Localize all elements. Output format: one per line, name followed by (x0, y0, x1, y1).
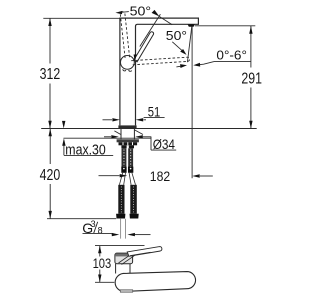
bottom view lever crossing housing (119, 253, 137, 265)
svg-text:max.30: max.30 (65, 142, 106, 158)
mounting nut band (119, 142, 138, 145)
ball lower bumps (123, 69, 132, 71)
stream angle right arrow (199, 62, 214, 65)
bottom view cartridge housing (115, 253, 133, 264)
stream angle left arrow (176, 66, 182, 67)
G3/8 underline (83, 232, 112, 234)
svg-text:312: 312 (40, 66, 61, 83)
label 182 (150, 168, 171, 184)
braided hose left (122, 148, 127, 172)
hose end fittings (121, 167, 126, 173)
svg-text:51: 51 (148, 103, 161, 119)
handle ball joint (121, 56, 135, 70)
handle down position dashed (131, 57, 189, 65)
label G 3/8 (82, 219, 102, 236)
thin hose transition lines (119, 173, 135, 185)
label 420 (40, 167, 61, 184)
bottom view gasket strip (120, 290, 132, 292)
label 312 (40, 66, 61, 83)
countertop deck line (41, 128, 257, 130)
mounting washer band (117, 139, 139, 142)
counter underside line (64, 137, 152, 139)
shank below deck (121, 129, 134, 140)
water stream vertical line (191, 27, 193, 179)
max30 top arrow (63, 122, 65, 124)
hose end cap left (116, 214, 125, 219)
dimension 182 left arrow (99, 175, 120, 177)
svg-text:291: 291 (241, 70, 262, 87)
stream 6 degree tilt line (187, 27, 191, 63)
lever rod solid (134, 32, 154, 62)
thread extension lines (121, 219, 126, 239)
angle label 50 second (166, 28, 187, 43)
bottom view lever rod (127, 247, 162, 257)
bottom view neck (116, 264, 130, 274)
svg-text:50°: 50° (166, 28, 187, 43)
label 291 (241, 70, 262, 87)
bottom view 103 top extension line (95, 245, 145, 247)
lever rod base arrowhead (134, 55, 137, 63)
G3/8 left arrow (112, 233, 113, 234)
dimension 103 line (99, 246, 101, 283)
svg-text:3: 3 (91, 219, 96, 229)
spout bar outline (120, 18, 198, 125)
hose connector stubs (121, 145, 126, 148)
label 103 (93, 255, 112, 271)
countertop hole chamfer right (135, 130, 144, 135)
svg-text:420: 420 (40, 167, 61, 184)
label 0-6 degrees (216, 47, 247, 62)
dimension 312 line (49, 18, 51, 128)
lower supply hose right (130, 185, 137, 214)
angle label 50 first (130, 4, 152, 19)
mousseur nub (188, 24, 195, 27)
connector line to second 50 label (159, 17, 172, 25)
svg-text:0°-6°: 0°-6° (216, 47, 247, 62)
50 second leader arrow to handle-down (172, 42, 184, 52)
top extension line left (43, 17, 120, 19)
svg-text:50°: 50° (130, 4, 152, 19)
bottom view base oval (115, 272, 195, 292)
0-6 underline (214, 61, 251, 63)
dimension 420 line (49, 129, 51, 219)
label diameter 34 box (151, 137, 176, 151)
G3/8 level line (47, 218, 116, 220)
braided hose right (128, 148, 133, 172)
hose end cap right (130, 214, 139, 219)
svg-text:182: 182 (150, 168, 171, 184)
svg-text:Ø34: Ø34 (153, 136, 175, 152)
50 first right arrow leader along lever axis (140, 14, 161, 46)
max30 bottom arrow (63, 146, 65, 156)
label 51 (148, 103, 161, 119)
countertop hole chamfer left (114, 131, 121, 135)
label max.30 box (65, 142, 106, 158)
lower supply hose left (118, 185, 124, 214)
G3/8 right arrow (135, 234, 151, 236)
dimension 182 right arrow (200, 175, 213, 177)
dimension 291 line (250, 26, 252, 128)
base gasket dark (118, 125, 136, 128)
svg-text:103: 103 (93, 255, 112, 271)
bottom view 103 bottom extension line (95, 281, 114, 283)
top extension line right (195, 25, 256, 27)
50 first left arrow (120, 11, 129, 14)
dimension 51 arrows (103, 119, 113, 121)
diameter 34 arrows (104, 136, 111, 138)
handle up position dashed (120, 12, 129, 58)
